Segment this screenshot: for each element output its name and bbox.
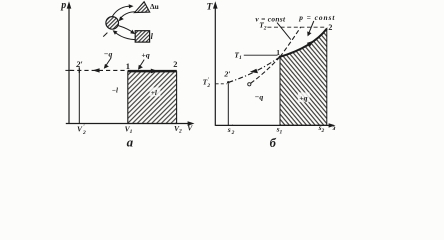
svg-text:s1: s1 [276,125,283,136]
axis s (horizontal) [215,123,335,127]
svg-text:−q: −q [104,49,113,58]
curve v=const below 1 (dashed) [251,57,280,84]
ordinate at s2' [227,84,229,125]
end marker circle on v-curve [248,83,251,86]
curve p=const 1 to 2 (solid thick) [280,29,327,57]
svg-text:1: 1 [276,48,280,57]
dashed level T2' [216,83,227,85]
point 1 dot [279,56,282,59]
dashed line 1 to 2' [70,69,128,71]
level line T1 [244,54,278,56]
tick at point 2' [78,67,80,73]
flow arrow square back to circle [113,30,135,39]
arrow toward 2' on dashed curve [250,69,258,73]
svg-text:V: V [187,124,193,133]
axis p (vertical) [67,1,72,124]
flow arrow triangle back to circle [119,12,136,21]
arrow toward 2' [93,68,100,72]
svg-text:1: 1 [126,61,130,71]
svg-text:2′: 2′ [75,60,83,69]
svg-text:2′: 2′ [223,70,230,79]
ordinate line at V2' [78,70,80,123]
svg-text:p: p [60,0,66,11]
curve v=const above 1 (dashed) [280,27,301,57]
dashed level T2 [267,26,326,28]
tick on p axis at process level [65,69,72,71]
svg-text:l: l [151,32,154,41]
arrow -q to line [104,58,111,69]
svg-text:v = const: v = const [255,15,286,24]
point 2' dot [227,81,230,84]
svg-text:V2: V2 [174,124,182,135]
internal-energy triangle [135,2,150,13]
svg-text:Δu: Δu [150,2,159,11]
svg-text:+q: +q [299,93,307,102]
label +q [298,92,310,102]
hatched work area rectangle +l [128,72,177,124]
svg-text:2: 2 [173,60,177,69]
leader from v=const label [277,23,291,40]
svg-text:−q: −q [255,93,264,102]
svg-text:p = const: p = const [298,13,335,22]
arrow +q to line [138,60,144,70]
axis V (horizontal) [66,121,195,125]
flow arrow circle to square [118,26,135,34]
hatched heat area +q [280,29,327,126]
system circle (hatched) [106,17,119,30]
svg-text:+l: +l [151,89,157,97]
svg-text:а: а [127,134,134,149]
svg-text:T′2: T′2 [203,77,211,89]
svg-text:V′2: V′2 [77,124,86,136]
svg-text:2: 2 [328,23,332,32]
svg-text:з: з [331,123,335,132]
inflow tail into circle [103,33,107,37]
leader arrow from p=const label [307,21,314,36]
work square [135,31,149,42]
axis T (vertical) [213,1,218,126]
label +l [150,87,161,97]
svg-text:+q: +q [141,51,149,60]
svg-text:б: б [270,136,277,150]
curve p=const from 2' to 1 (dash-dot) [228,57,280,83]
flow arrow circle to triangle [112,4,133,16]
arrow on solid curve [307,41,314,47]
svg-text:T1: T1 [234,50,242,61]
svg-text:T: T [207,2,214,12]
arrow on 1-2 toward 2 [151,69,158,74]
process line 1-2 (thick) [128,70,177,72]
svg-text:−l: −l [112,86,118,94]
